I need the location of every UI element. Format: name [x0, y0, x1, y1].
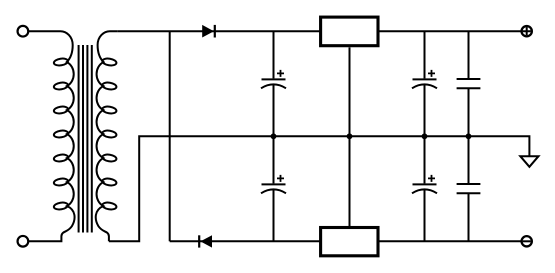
capacitor C6 (negative output ceramic)	[457, 136, 481, 241]
transformer T1 primary crossover loops	[53, 58, 68, 211]
wire bottom rail (to U2 input)	[170, 240, 321, 242]
wire positive output rail	[380, 30, 522, 32]
regulator U2 (negative)	[321, 228, 378, 256]
transformer T1 core	[79, 45, 92, 233]
capacitor C4 (negative output electrolytic)	[412, 136, 437, 241]
diode D2 (negative rectifier)	[199, 235, 212, 247]
transformer T1 secondary crossover loops	[102, 58, 117, 211]
terminal +V output	[522, 26, 532, 36]
wire U2 ground pin	[349, 136, 351, 227]
terminal J2 (AC input bottom)	[18, 236, 29, 247]
wire secondary return to 0V mid rail and ground drop	[109, 136, 530, 241]
terminal -V output	[522, 236, 532, 246]
wire top rail (secondary top to U1 input)	[118, 30, 321, 32]
diode D1 (positive rectifier)	[202, 25, 215, 38]
capacitor C1 (positive input filter, electrolytic)	[261, 32, 286, 136]
capacitor C2 (negative input filter, electrolytic)	[261, 136, 286, 241]
capacitor C5 (positive output ceramic)	[457, 32, 481, 136]
node junction regulator grounds on 0V rail	[347, 133, 353, 139]
node junction C1/C2 on 0V rail	[271, 133, 277, 139]
transformer T1 secondary winding	[96, 31, 118, 241]
node junction C5/C6 on 0V rail	[466, 133, 472, 139]
ground symbol	[520, 156, 538, 167]
wire AC feed down to negative rectifier	[169, 31, 171, 241]
regulator U1 (positive)	[321, 17, 378, 46]
terminal J1 (AC input top)	[18, 26, 29, 37]
wire U1 ground pin	[349, 47, 351, 136]
node junction C3/C4 on 0V rail	[422, 133, 428, 139]
capacitor C3 (positive output electrolytic)	[412, 32, 437, 136]
wire negative output rail	[380, 240, 522, 242]
transformer T1 primary winding (with wires to J1/J2)	[29, 31, 75, 241]
